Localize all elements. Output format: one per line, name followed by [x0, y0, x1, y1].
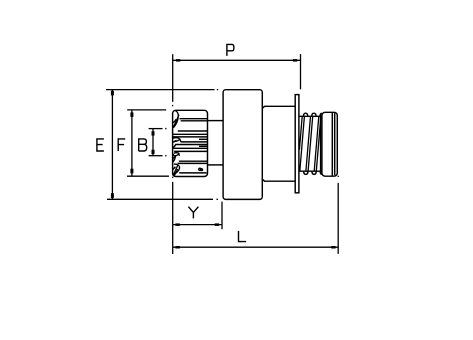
- tick L left: [175, 246, 179, 249]
- extension line Y/L left: [172, 182, 174, 254]
- neck cylinder: [262, 106, 295, 181]
- dimension line L: [173, 246, 339, 248]
- gear tooth 3: [173, 153, 180, 162]
- tick Y left: [175, 223, 179, 226]
- dimension line B: [152, 129, 154, 156]
- dash-dot dots B: [165, 129, 166, 156]
- centerline (vertical, gear face): [172, 106, 173, 178]
- gear tooth edge lines: [173, 119, 208, 173]
- dimension line P: [173, 59, 301, 61]
- extension line F top: [127, 109, 166, 111]
- tick B bottom: [152, 150, 155, 154]
- tick F bottom: [130, 169, 133, 174]
- label P: [227, 44, 234, 56]
- pinion gear body: [173, 110, 208, 176]
- dimension line F: [131, 110, 133, 176]
- end bar B top: [149, 128, 163, 130]
- dimension line E: [111, 90, 113, 200]
- tick L right: [331, 246, 335, 249]
- end cap: [321, 112, 338, 176]
- tick F top: [130, 112, 133, 117]
- label B: [139, 139, 147, 151]
- extension line L right: [338, 176, 339, 254]
- label F: [118, 139, 125, 151]
- tick E top: [111, 91, 114, 96]
- tick P left: [176, 59, 180, 62]
- label Y: [188, 207, 198, 219]
- extension line P right: [300, 54, 302, 89]
- extension line F bottom: [127, 175, 169, 177]
- tick B top: [152, 131, 155, 135]
- tick Y right: [215, 223, 219, 226]
- tick P right: [293, 59, 297, 62]
- extension line E top: [106, 89, 218, 91]
- gear tooth 1: [173, 111, 179, 128]
- tick E bottom: [111, 193, 114, 198]
- dimension line Y: [173, 224, 222, 226]
- clutch body cylinder: [223, 90, 262, 200]
- hub between gear and clutch body: [208, 121, 224, 165]
- extension line E bottom: [107, 198, 218, 200]
- extension line P left: [172, 54, 174, 102]
- label E: [97, 139, 104, 151]
- end bar B bottom: [149, 155, 163, 157]
- flange washer: [295, 95, 299, 193]
- helical spline coil: [299, 113, 322, 174]
- extension line Y right: [221, 202, 223, 230]
- gear tooth 4: [173, 164, 180, 176]
- gear tooth 2: [173, 138, 181, 142]
- label L: [239, 231, 247, 242]
